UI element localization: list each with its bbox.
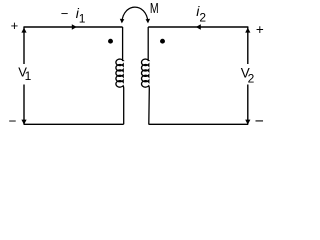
svg-text:−: −	[255, 113, 264, 130]
arrowhead: down arrow on right vertical wire	[245, 120, 250, 125]
arrowhead: down arrow on left vertical wire	[21, 120, 26, 125]
dot marker on L2 (polarity dot)	[160, 39, 165, 44]
wire: left loop left vertical (bottom stub)	[23, 85, 25, 125]
mutual coupling arc M	[122, 7, 148, 22]
arrowhead: right end of M arc	[146, 19, 151, 24]
inductor L1 (left coil with top/bottom stems)	[116, 27, 124, 124]
svg-text:1: 1	[79, 11, 86, 25]
wire: right loop right vertical (top stub)	[247, 27, 249, 64]
svg-text:−: −	[61, 6, 69, 21]
wire: right loop right vertical (bottom stub)	[247, 85, 249, 125]
svg-text:+: +	[11, 18, 19, 33]
svg-text:−: −	[9, 114, 17, 129]
svg-text:M: M	[150, 1, 159, 17]
arrowhead: current i2 on right top rail (pointing left)	[196, 24, 201, 29]
arrowhead: left end of M arc	[120, 19, 125, 24]
inductor L2 (right coil with top/bottom stems)	[141, 27, 149, 124]
svg-text:1: 1	[25, 69, 32, 83]
svg-text:+: +	[256, 22, 264, 37]
svg-text:2: 2	[199, 10, 206, 24]
arrowhead: up arrow on right vertical wire	[245, 28, 250, 33]
dot marker on L1 (polarity dot)	[108, 39, 113, 44]
arrowhead: current i1 on left top rail (pointing right)	[72, 24, 77, 29]
wire: left loop top rail	[24, 26, 123, 28]
arrowhead: up arrow on left vertical wire	[21, 28, 26, 33]
wire: left loop bottom rail	[24, 123, 124, 125]
wire: left loop left vertical (top stub)	[23, 27, 25, 64]
wire: right loop bottom rail	[149, 123, 249, 125]
svg-text:2: 2	[248, 72, 255, 86]
wire: right loop top rail	[148, 26, 248, 28]
